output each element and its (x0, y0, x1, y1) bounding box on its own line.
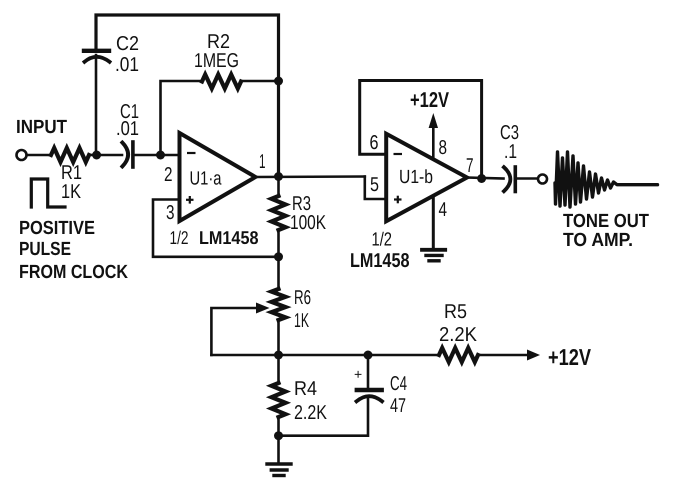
svg-text:TONE OUT: TONE OUT (563, 211, 649, 232)
svg-text:R5: R5 (444, 301, 467, 323)
svg-text:1MEG: 1MEG (194, 50, 239, 72)
svg-text:C4: C4 (390, 373, 407, 395)
svg-text:INPUT: INPUT (16, 117, 67, 138)
svg-text:C2: C2 (116, 33, 139, 55)
svg-text:8: 8 (439, 137, 448, 159)
svg-text:7: 7 (466, 155, 474, 177)
svg-text:100K: 100K (290, 212, 327, 234)
svg-text:1: 1 (259, 151, 266, 173)
svg-text:2: 2 (164, 164, 173, 186)
svg-text:LM1458: LM1458 (350, 250, 410, 272)
svg-text:+12V: +12V (410, 88, 450, 112)
svg-text:R4: R4 (294, 378, 317, 400)
svg-text:U1-b: U1-b (399, 167, 433, 188)
svg-text:U1·a: U1·a (190, 169, 222, 190)
svg-text:POSITIVE: POSITIVE (19, 218, 95, 239)
svg-text:47: 47 (390, 395, 406, 417)
svg-text:TO AMP.: TO AMP. (563, 230, 633, 251)
svg-text:+12V: +12V (548, 344, 592, 370)
svg-text:R6: R6 (294, 287, 311, 309)
svg-text:1K: 1K (61, 181, 82, 203)
svg-text:.01: .01 (115, 54, 139, 76)
svg-text:.01: .01 (116, 118, 139, 140)
svg-text:3: 3 (166, 202, 175, 224)
svg-text:6: 6 (370, 132, 379, 154)
svg-text:1/2: 1/2 (170, 227, 189, 248)
svg-text:+: + (354, 366, 362, 382)
svg-text:1K: 1K (294, 310, 309, 332)
svg-text:PULSE: PULSE (19, 239, 71, 260)
svg-text:2.2K: 2.2K (439, 324, 478, 346)
svg-text:1/2: 1/2 (372, 230, 393, 251)
svg-text:2.2K: 2.2K (294, 402, 328, 424)
svg-text:5: 5 (370, 174, 379, 196)
svg-text:FROM CLOCK: FROM CLOCK (19, 262, 128, 283)
svg-text:LM1458: LM1458 (199, 227, 259, 248)
svg-text:4: 4 (439, 199, 448, 221)
svg-text:.1: .1 (504, 141, 517, 163)
